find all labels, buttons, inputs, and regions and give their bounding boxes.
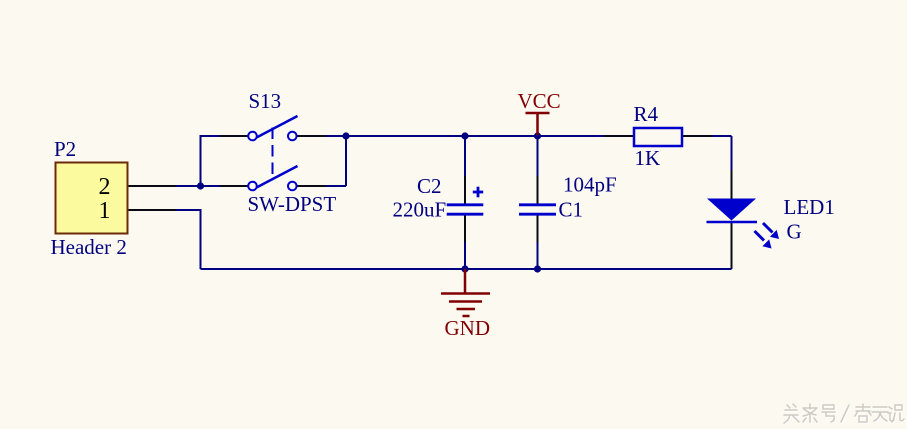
svg-text:SW-DPST: SW-DPST	[248, 192, 337, 216]
svg-text:C1: C1	[559, 198, 584, 222]
svg-text:C2: C2	[417, 174, 442, 198]
svg-text:G: G	[787, 220, 802, 244]
svg-text:VCC: VCC	[518, 89, 561, 113]
svg-text:S13: S13	[249, 89, 282, 113]
svg-text:R4: R4	[634, 102, 659, 126]
svg-text:220uF: 220uF	[393, 198, 447, 222]
svg-text:2: 2	[99, 174, 111, 200]
svg-text:LED1: LED1	[784, 195, 835, 219]
svg-text:104pF: 104pF	[563, 173, 617, 197]
svg-text:P2: P2	[54, 137, 76, 161]
svg-text:Header 2: Header 2	[51, 235, 127, 259]
svg-text:1K: 1K	[635, 146, 661, 170]
svg-text:1: 1	[99, 198, 111, 224]
svg-text:GND: GND	[445, 316, 491, 340]
